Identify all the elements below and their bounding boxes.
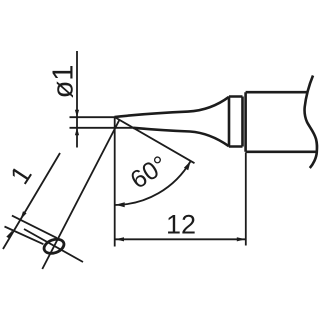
shaft	[246, 92, 317, 152]
ext line bottom	[70, 127, 134, 129]
arrow left	[115, 237, 124, 241]
face plane line	[24, 229, 83, 262]
svg-text:12: 12	[166, 210, 196, 240]
ext line right	[245, 153, 247, 246]
detail arrow lower	[6, 230, 12, 239]
dia dim line	[76, 51, 78, 148]
tip cone top edge	[115, 97, 230, 117]
arc arrow up	[184, 161, 191, 170]
side line lower	[5, 227, 44, 245]
projection axis line	[42, 120, 119, 269]
dim line 12	[115, 238, 245, 240]
side line upper	[12, 216, 57, 239]
svg-text:ø1: ø1	[48, 65, 80, 99]
bevel face line	[115, 117, 195, 163]
angle arc	[115, 161, 191, 205]
break line	[305, 76, 317, 169]
dia arrow up	[75, 128, 79, 136]
detail dim leader	[3, 153, 60, 249]
ext line top	[70, 116, 115, 118]
tip cone bottom edge	[133, 128, 229, 147]
arc arrow low	[115, 202, 124, 207]
detail arrow upper	[20, 211, 26, 220]
collar	[229, 97, 243, 147]
arrow right	[237, 237, 246, 241]
ext line left	[114, 117, 116, 247]
face ellipse	[42, 237, 66, 256]
dia arrow down	[75, 110, 79, 118]
